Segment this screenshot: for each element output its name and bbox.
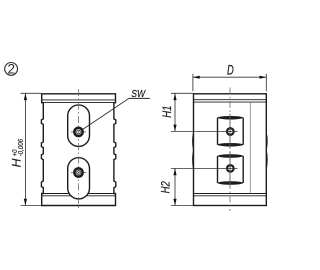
front view vertical centerline xyxy=(78,89,80,211)
front view bottom collar lines (broken at slot) xyxy=(42,193,69,195)
svg-text:-0,006: -0,006 xyxy=(16,138,25,156)
svg-text:H: H xyxy=(10,158,24,167)
side view body outline xyxy=(194,94,267,206)
bottom extension line for H2 xyxy=(171,205,193,207)
dimension H extension lines xyxy=(21,92,41,94)
side view vertical centerline xyxy=(229,88,231,212)
lower clamping screw head (front) xyxy=(71,167,86,178)
front view top collar lines xyxy=(42,99,116,101)
dimension H2 line with arrows xyxy=(173,168,176,205)
upper slot (obround) xyxy=(68,105,90,147)
H2 extension line through lower boss xyxy=(171,167,238,169)
svg-text:D: D xyxy=(227,63,234,78)
D extension lines xyxy=(192,74,194,91)
side view bottom collar lines xyxy=(194,193,267,195)
top extension line for H1 xyxy=(171,92,193,94)
svg-text:SW: SW xyxy=(131,89,146,100)
side view left edge bulge xyxy=(192,133,195,170)
dimension H text xyxy=(10,138,26,167)
upper screw boss (side) xyxy=(218,114,244,149)
side view inner edge line xyxy=(249,103,251,194)
dimension H1 line with arrows xyxy=(173,93,176,131)
side view right edge bulge xyxy=(265,133,268,170)
svg-text:H1: H1 xyxy=(162,106,174,118)
SW leader line xyxy=(83,89,150,129)
position number balloon (2) xyxy=(5,62,18,77)
H1 extension line through upper boss xyxy=(171,130,238,132)
front view body outline xyxy=(41,94,115,206)
svg-text:H2: H2 xyxy=(160,181,172,194)
svg-text:2: 2 xyxy=(7,62,15,77)
lower slot (obround) xyxy=(68,158,90,199)
dimension D line with arrows xyxy=(193,76,266,79)
lower screw boss (side) xyxy=(218,152,244,187)
side view top collar lines xyxy=(194,99,267,101)
dimension H line with arrows xyxy=(24,93,27,205)
upper clamping screw head (front) xyxy=(71,126,86,137)
